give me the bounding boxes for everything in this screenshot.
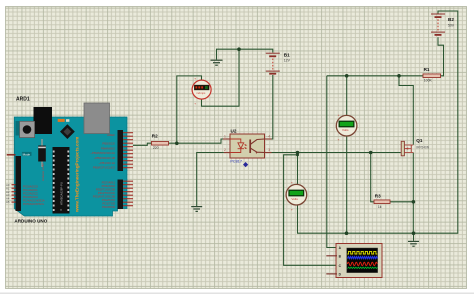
right pins top bank xyxy=(123,133,133,168)
wire arduino pin to R2 xyxy=(133,143,152,145)
opto pin stubs xyxy=(223,139,272,153)
wire opto pin3 bus to Q1 gate xyxy=(272,152,401,154)
scope channel letters xyxy=(339,246,342,276)
svg-text:+: + xyxy=(338,113,340,117)
wire R2 to opto pin1 xyxy=(169,139,224,143)
svg-text:mAmps: mAmps xyxy=(196,91,206,95)
reset button xyxy=(20,121,35,137)
resistor R2 xyxy=(152,134,169,151)
node bottom-bus/VM1 junction xyxy=(345,231,349,235)
svg-text:Q1: Q1 xyxy=(416,138,423,143)
wire B1 bottom to opto pin4 xyxy=(272,75,273,139)
voltmeter VM1 xyxy=(336,113,357,141)
node top/Q1-drain junction xyxy=(397,74,401,78)
svg-text:+: + xyxy=(194,76,196,80)
node B junction xyxy=(237,47,241,51)
opto internal led xyxy=(230,139,244,153)
node bus/R3 junction xyxy=(369,151,373,155)
left header strip xyxy=(16,156,22,211)
svg-text:~PB1/OC1A: ~PB1/OC1A xyxy=(99,161,115,165)
right pin labels top bank xyxy=(90,133,116,170)
right pins bottom bank xyxy=(123,181,133,206)
svg-text:1k: 1k xyxy=(378,205,382,209)
svg-text:IRF540N: IRF540N xyxy=(416,146,429,150)
svg-text:Volts: Volts xyxy=(291,197,298,201)
probe marker xyxy=(243,162,248,167)
node R3/source junction xyxy=(412,200,416,204)
svg-text:12V: 12V xyxy=(284,58,291,62)
Mode label xyxy=(22,152,32,156)
svg-text:Mode: Mode xyxy=(23,152,31,156)
svg-text:1: 1 xyxy=(224,135,226,139)
node R2/ammeter junction xyxy=(175,142,179,146)
svg-text:+: + xyxy=(194,102,196,106)
usb connector xyxy=(84,103,110,134)
opto internal transistor xyxy=(250,139,264,153)
wire R1 right to battery B2 bottom xyxy=(438,37,444,76)
wire node to ammeter top xyxy=(177,76,202,143)
dip ic ATMEGA328 xyxy=(53,147,70,214)
svg-text:www.TheEngineeringProjects.com: www.TheEngineeringProjects.com xyxy=(75,137,80,213)
svg-text:220: 220 xyxy=(153,146,159,150)
svg-text:U2: U2 xyxy=(231,129,237,134)
ground G1 xyxy=(211,60,223,65)
mosfet Q1 xyxy=(401,138,430,156)
left long pin xyxy=(7,154,16,156)
reset label strip xyxy=(16,121,20,136)
opto pin numbers xyxy=(224,135,270,153)
wire ground G3 stub xyxy=(413,233,415,241)
svg-text:Volts: Volts xyxy=(342,128,349,132)
ground G2 xyxy=(191,207,202,212)
wire bus tap down to R3 left xyxy=(371,153,374,202)
right pin labels bottom bank xyxy=(93,181,116,210)
svg-text:+: + xyxy=(338,138,340,142)
svg-text:PC817: PC817 xyxy=(230,159,242,163)
svg-text:PB4/MISO: PB4/MISO xyxy=(101,146,116,150)
battery B2 xyxy=(431,14,455,35)
svg-text:AREF: AREF xyxy=(107,133,115,137)
left A pin names xyxy=(6,183,10,204)
svg-text:B1: B1 xyxy=(284,53,290,58)
waveform B blue xyxy=(348,257,378,259)
board body xyxy=(14,117,127,216)
svg-text:PB5/SCK: PB5/SCK xyxy=(102,142,115,146)
left bottom pin labels xyxy=(23,184,45,206)
svg-text:100K: 100K xyxy=(424,79,433,83)
ammeter AM1 xyxy=(192,76,211,105)
node top/VM1 junction xyxy=(345,74,349,78)
scope screen xyxy=(347,248,378,273)
svg-text:PB0/ICP1/CLKO: PB0/ICP1/CLKO xyxy=(93,166,116,170)
wire node B to ground G1 xyxy=(217,49,240,59)
wire top node down to scope channel A xyxy=(327,76,337,248)
wire top node line with R1 xyxy=(327,75,423,77)
oscilloscope xyxy=(326,244,382,278)
svg-text:R3: R3 xyxy=(375,193,381,198)
svg-text:~PB2/SS/OC1B: ~PB2/SS/OC1B xyxy=(94,156,115,160)
barrel jack xyxy=(34,107,53,134)
ground G3 xyxy=(408,241,419,246)
diode xyxy=(41,139,43,167)
node bottom-bus/ground junction xyxy=(412,231,416,235)
svg-text:+: + xyxy=(291,207,293,211)
resistor R1 xyxy=(423,67,441,82)
arduino ARD1 xyxy=(6,96,133,223)
svg-text:ARD1: ARD1 xyxy=(16,96,30,102)
waveform C red xyxy=(347,262,377,265)
svg-text:3: 3 xyxy=(268,148,270,152)
node scope-C tap junction xyxy=(296,153,299,156)
wire VM2 bottom to bottom bus xyxy=(298,11,458,233)
waveform D green xyxy=(348,267,378,268)
wire tap to scope channel C xyxy=(284,155,337,265)
svg-text:4: 4 xyxy=(268,135,270,139)
wire node B to battery B1 top xyxy=(239,49,273,52)
svg-text:Arduino UNO: Arduino UNO xyxy=(41,162,45,181)
svg-text:B2: B2 xyxy=(448,17,454,22)
svg-text:A5: A5 xyxy=(6,200,10,204)
battery B1 xyxy=(266,53,291,74)
left A pins xyxy=(12,185,16,202)
svg-text:R2: R2 xyxy=(152,134,158,139)
svg-text:PD0/RXD: PD0/RXD xyxy=(102,205,116,209)
black diamond chip xyxy=(60,124,75,139)
svg-text:ARDUINO UNO: ARDUINO UNO xyxy=(14,218,47,223)
svg-text:PC5/ADC5/SCL: PC5/ADC5/SCL xyxy=(23,202,45,206)
wire Q1 source to bottom bus xyxy=(412,153,414,234)
window bottom edge xyxy=(0,293,474,294)
wire VM1 bottom to bottom bus xyxy=(346,136,348,233)
right header strips xyxy=(118,130,124,171)
svg-text:50V: 50V xyxy=(448,24,455,28)
resistor R3 xyxy=(374,193,390,209)
scope pin stubs B and D xyxy=(326,255,337,257)
svg-text:+: + xyxy=(291,180,293,184)
svg-text:~PB3/MOSI/OC2A: ~PB3/MOSI/OC2A xyxy=(90,151,115,155)
node bus/VM2 junction xyxy=(296,151,300,155)
wire opto pin2 to ground G2 xyxy=(197,153,224,207)
waveform A yellow xyxy=(347,251,377,254)
wire R3 right to source node xyxy=(390,201,413,203)
wire node to voltmeter VM1 top xyxy=(346,76,348,116)
optocoupler U2 xyxy=(223,129,272,168)
voltmeter VM2 xyxy=(286,180,307,211)
wire ammeter bottom to node B xyxy=(202,49,240,106)
svg-text:ATMEGA328P-PU: ATMEGA328P-PU xyxy=(60,182,64,205)
wire bus tap to voltmeter VM2 top xyxy=(297,153,299,185)
orange passive xyxy=(58,119,65,122)
svg-text:R1: R1 xyxy=(424,67,430,72)
svg-text:2: 2 xyxy=(224,148,226,152)
wire node to Q1 drain xyxy=(399,76,413,145)
